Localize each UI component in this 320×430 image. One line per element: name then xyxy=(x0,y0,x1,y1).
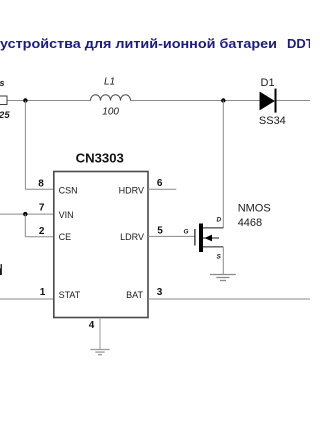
cropped label at left edge (partial character) xyxy=(0,264,2,275)
ground under transistor source xyxy=(210,275,236,281)
wire: VIN pin 7 from left edge xyxy=(0,213,54,215)
svg-text:6: 6 xyxy=(157,178,163,189)
svg-text:CSN: CSN xyxy=(59,185,78,195)
svg-text:100: 100 xyxy=(102,107,119,118)
svg-text:DDT: DDT xyxy=(287,36,310,51)
op-amp U1 CN3303 body xyxy=(54,172,148,318)
svg-text:HDRV: HDRV xyxy=(119,185,144,195)
node A junction on rail xyxy=(23,98,27,102)
wire: junction A down to CSN xyxy=(24,101,26,190)
svg-text:3: 3 xyxy=(157,287,163,298)
svg-text:1: 1 xyxy=(40,287,46,298)
wire: junction B down to CE xyxy=(24,214,26,237)
ground under pin 4 xyxy=(90,350,109,355)
wire: CSN pin 8 horizontal xyxy=(25,188,53,190)
diode D1 triangle xyxy=(260,92,275,110)
transistor Q1 NMOS gate line xyxy=(194,229,196,246)
svg-text:L1: L1 xyxy=(104,77,115,88)
transistor Q1 channel bar xyxy=(199,224,203,253)
node B junction on VIN wire xyxy=(23,212,27,216)
svg-text:4468: 4468 xyxy=(238,217,262,229)
diode D1 cathode bar xyxy=(275,89,277,113)
svg-text:SS34: SS34 xyxy=(259,115,286,127)
svg-text:2: 2 xyxy=(39,226,45,237)
wire: CE pin 2 horizontal xyxy=(25,236,54,238)
transistor Q1 drain lead xyxy=(203,227,223,229)
wire: junction C down to drain xyxy=(222,101,224,228)
svg-text:D1: D1 xyxy=(261,77,275,89)
svg-text:LDRV: LDRV xyxy=(120,232,144,242)
svg-text:устройства для литий-ионной ба: устройства для литий-ионной батареи xyxy=(0,36,277,51)
svg-text:VIN: VIN xyxy=(59,210,74,220)
svg-text:NMOS: NMOS xyxy=(238,203,271,215)
resistor Rs (cropped at left edge) xyxy=(0,96,7,105)
svg-text:4: 4 xyxy=(89,320,95,331)
svg-text:BAT: BAT xyxy=(126,290,143,300)
svg-text:S: S xyxy=(217,254,222,261)
svg-text:7: 7 xyxy=(39,202,45,213)
wire: LDRV pin 5 to gate xyxy=(148,235,195,237)
title (cropped): устройства для литий-ионной батареи DDT xyxy=(0,36,314,51)
svg-text:CN3303: CN3303 xyxy=(76,152,124,166)
svg-text:0.25: 0.25 xyxy=(0,110,10,121)
svg-text:STAT: STAT xyxy=(59,290,81,300)
svg-text:Rs: Rs xyxy=(0,78,5,88)
wire: BAT pin 3 to right edge xyxy=(148,298,310,300)
wire: source down to ground xyxy=(222,247,224,275)
wire: pin 4 down from body xyxy=(99,318,101,350)
svg-text:CE: CE xyxy=(59,232,72,242)
wire: STAT pin 1 from left edge xyxy=(0,298,54,300)
wire: HDRV pin 6 stub xyxy=(148,188,176,190)
node C junction on rail above transistor xyxy=(221,98,225,102)
inductor L1 xyxy=(91,95,131,101)
svg-text:D: D xyxy=(217,217,222,224)
svg-text:8: 8 xyxy=(38,178,44,189)
wire: main top rail y=100.5 xyxy=(7,100,310,102)
svg-text:5: 5 xyxy=(157,226,163,237)
transistor Q1 source lead xyxy=(203,246,223,248)
transistor Q1 body lead with arrow xyxy=(203,237,219,239)
svg-text:G: G xyxy=(184,229,189,236)
